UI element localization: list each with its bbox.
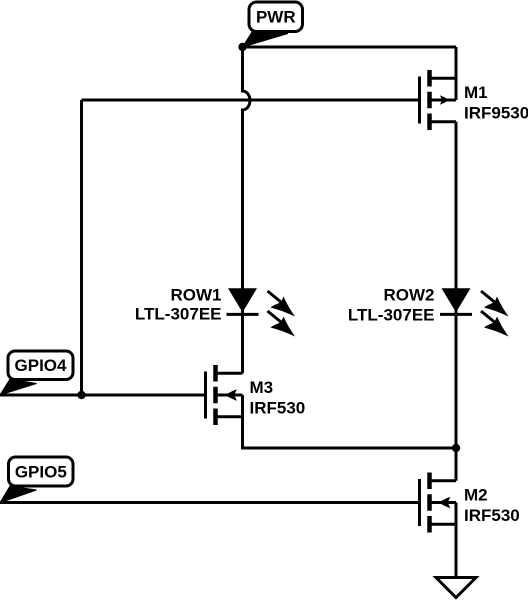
label ROW1 xyxy=(135,286,222,324)
svg-text:LTL-307EE: LTL-307EE xyxy=(348,305,435,324)
LED ROW2 light arrow 1 xyxy=(481,291,509,317)
wire M1 source to top rail xyxy=(455,47,458,100)
LED ROW1 light arrow 2 xyxy=(268,311,296,337)
wire M1 drain down through ROW2 to junction xyxy=(455,122,458,448)
svg-text:LTL-307EE: LTL-307EE xyxy=(135,305,222,324)
wire M3 source to junction node xyxy=(243,395,457,448)
wire M2 drain up to junction xyxy=(455,448,458,481)
label M1 xyxy=(464,83,528,123)
wire M2 source to ground xyxy=(455,503,458,578)
svg-text:PWR: PWR xyxy=(256,8,296,27)
svg-text:ROW1: ROW1 xyxy=(171,286,222,305)
svg-text:GPIO5: GPIO5 xyxy=(15,462,67,481)
transistor M3 IRF530 (N-channel MOSFET) xyxy=(206,365,243,425)
node M3/M2 junction dot xyxy=(452,444,460,452)
label ROW2 xyxy=(348,286,435,325)
svg-text:M3: M3 xyxy=(250,378,274,397)
LED ROW1 LTL-307EE xyxy=(227,288,259,314)
LED ROW1 light arrow 1 xyxy=(268,291,296,317)
ground xyxy=(436,578,476,598)
svg-text:M1: M1 xyxy=(464,83,488,102)
wire PWR top rail xyxy=(243,46,457,49)
label GPIO5 callout xyxy=(0,457,73,503)
svg-text:IRF530: IRF530 xyxy=(250,398,306,417)
label PWR callout xyxy=(243,2,303,47)
wire M1 gate horizontal xyxy=(82,99,420,102)
label M2 xyxy=(464,485,520,525)
svg-text:GPIO4: GPIO4 xyxy=(15,356,68,375)
label M3 xyxy=(250,378,306,418)
node PWR junction dot xyxy=(238,43,246,51)
transistor M2 IRF530 (N-channel MOSFET) xyxy=(420,473,457,533)
wire GPIO4 riser up left side xyxy=(80,100,83,395)
wire GPIO5 horizontal to M2 gate xyxy=(0,501,420,504)
svg-text:ROW2: ROW2 xyxy=(384,286,435,305)
transistor M1 IRF9530 (P-channel MOSFET) xyxy=(420,70,457,130)
svg-text:IRF9530: IRF9530 xyxy=(464,104,528,123)
LED ROW2 LTL-307EE xyxy=(440,288,472,314)
node GPIO4 junction dot xyxy=(77,391,85,399)
wire GPIO4 horizontal to M3 gate xyxy=(0,394,206,397)
svg-text:IRF530: IRF530 xyxy=(464,506,520,525)
svg-text:M2: M2 xyxy=(464,485,488,504)
label GPIO4 callout xyxy=(0,351,73,395)
LED ROW2 light arrow 2 xyxy=(481,311,509,337)
wire PWR vertical to ROW1 (with hop over gate wire) xyxy=(243,47,251,373)
